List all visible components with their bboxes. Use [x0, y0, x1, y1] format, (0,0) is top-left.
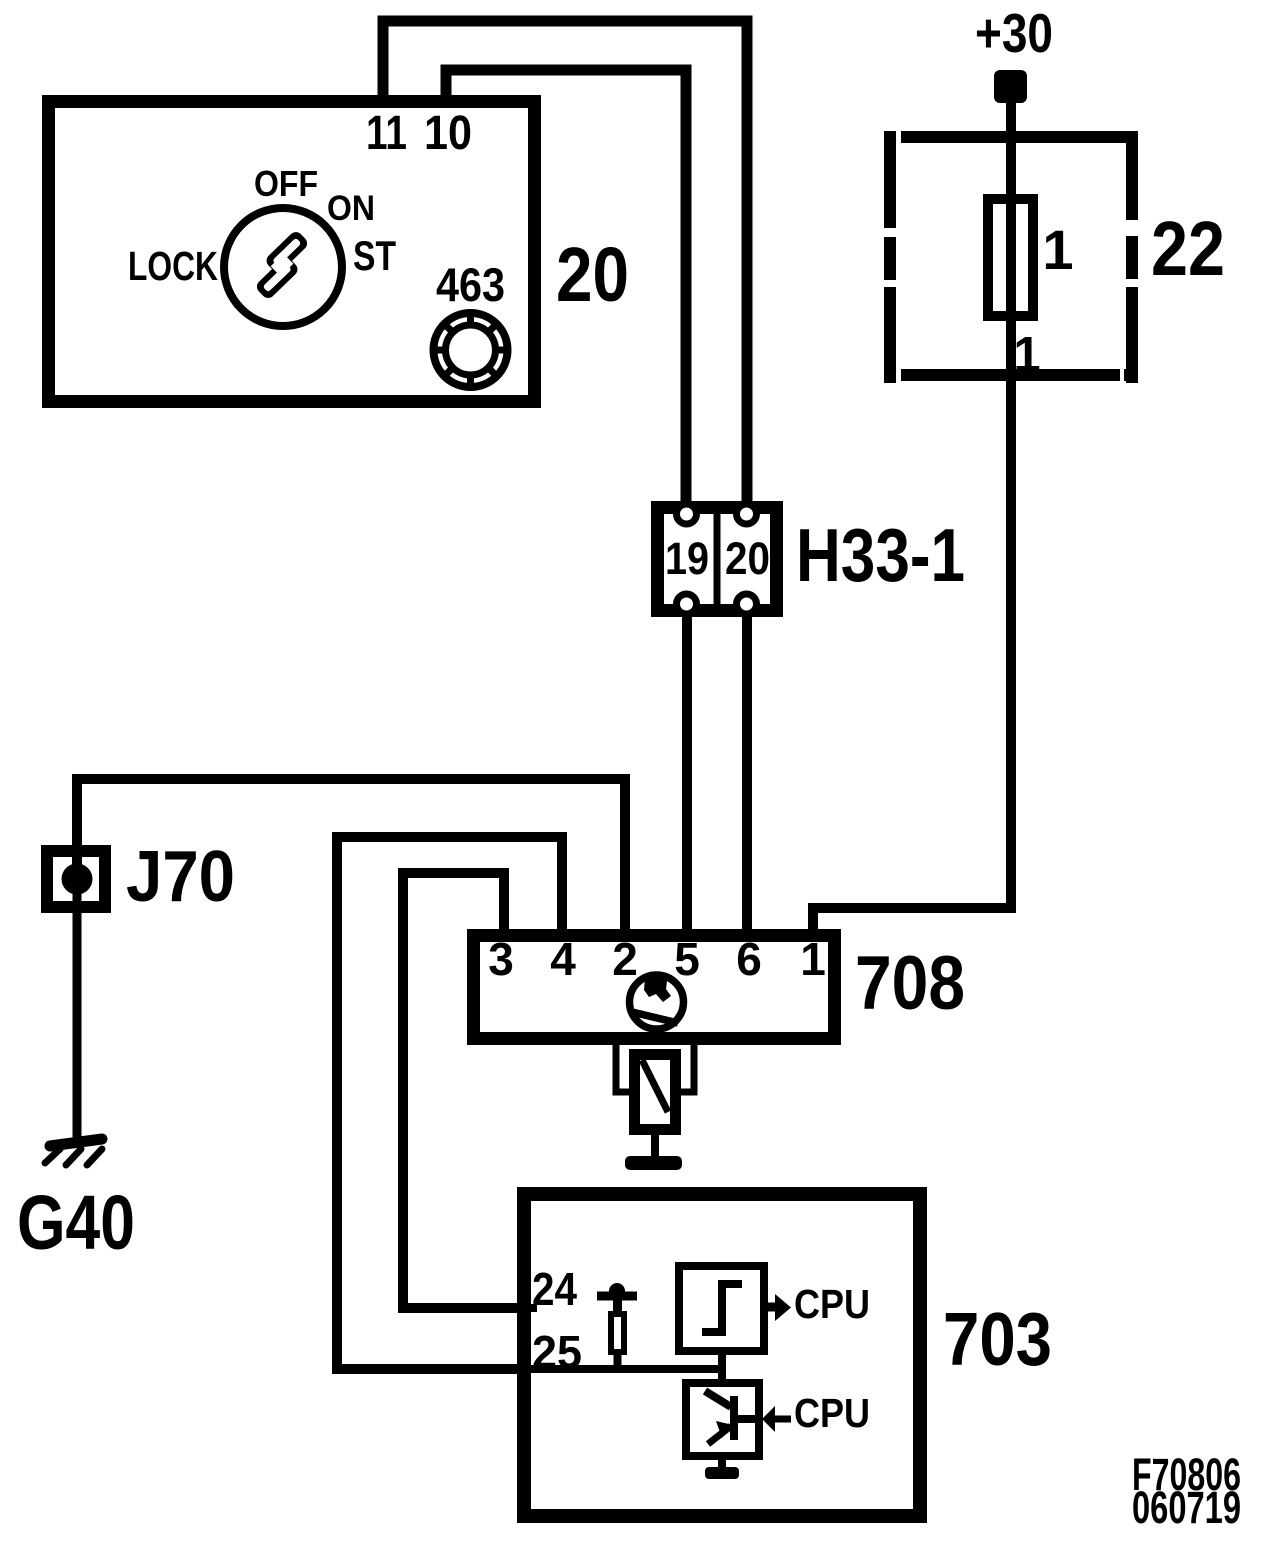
sensor holder left bracket: [616, 1045, 629, 1092]
svg-text:463: 463: [436, 258, 505, 311]
relay 708 box: [474, 936, 835, 1039]
H33-1 pin 20 top notch: [737, 504, 757, 524]
H33-1 pin 19 bottom notch: [677, 594, 697, 614]
transistor base lead: [734, 1415, 759, 1423]
svg-text:20: 20: [556, 232, 629, 318]
svg-text:CPU: CPU: [794, 1390, 870, 1436]
svg-text:G40: G40: [17, 1180, 135, 1266]
svg-text:ON: ON: [327, 189, 375, 228]
pull-up resistor bottom stub: [614, 1352, 622, 1369]
wire pin 10 to H33-1 pin 19: [446, 70, 686, 508]
ground G40 symbol: [45, 1139, 102, 1165]
sensor holder right bracket: [681, 1045, 694, 1092]
svg-text:+30: +30: [975, 2, 1053, 64]
wire ground G40 to J70: [73, 879, 82, 1142]
wire pin 11 to H33-1 pin 20: [383, 21, 747, 508]
svg-text:1: 1: [1013, 328, 1040, 382]
svg-text:060719: 060719: [1132, 1482, 1241, 1533]
battery terminal: [994, 70, 1027, 103]
svg-text:J70: J70: [126, 837, 235, 917]
CPU input arrow: [762, 1406, 791, 1432]
fuse box 22 dashed border right: [1126, 131, 1138, 383]
svg-text:2: 2: [612, 933, 638, 985]
wire schmitt to transistor: [718, 1351, 726, 1383]
svg-text:6: 6: [736, 933, 762, 985]
connector 463 symbol: [431, 310, 511, 390]
svg-text:708: 708: [855, 941, 965, 1026]
fuse box 22 dashed border top: [884, 131, 1138, 143]
transistor base bar: [730, 1396, 738, 1440]
wire H33-1 pin 19 to relay 708 pin 5: [682, 610, 692, 935]
internal supply bar: [597, 1292, 637, 1301]
chassis ground under transistor: [705, 1467, 739, 1479]
svg-text:5: 5: [674, 933, 700, 985]
svg-text:703: 703: [943, 1297, 1052, 1381]
wire +30 through fuse 1 to relay 708 pin 1: [813, 95, 1011, 935]
sensor diagonal: [642, 1060, 668, 1112]
pin 24 internal stub: [524, 1304, 537, 1312]
key cylinder circle: [224, 208, 342, 326]
key symbol: [246, 229, 319, 301]
wire sensor to ground: [651, 1135, 659, 1157]
chassis ground under sensor: [625, 1156, 682, 1170]
pin 25 internal net: [524, 1365, 722, 1373]
svg-text:10: 10: [424, 107, 472, 160]
wire J70 to relay 708 pin 2: [77, 779, 625, 935]
transistor emitter: [708, 1426, 731, 1444]
svg-text:11: 11: [366, 107, 407, 160]
transistor box: [686, 1383, 759, 1456]
fuse box 22 dashed border bottom: [884, 369, 1138, 381]
junction J70 box: [47, 851, 105, 907]
fuse 1 element: [988, 199, 1033, 316]
svg-text:1: 1: [1042, 218, 1073, 281]
svg-text:4: 4: [550, 933, 576, 985]
junction J70 dot: [62, 864, 93, 895]
pull-up resistor top stub: [613, 1300, 622, 1314]
wire relay 708 pin 3 to ECU 703 pin 24: [403, 873, 520, 1308]
wire transistor to ground: [718, 1456, 726, 1468]
fuse box 22 dashed border left: [884, 131, 896, 383]
svg-text:19: 19: [665, 533, 709, 584]
internal supply ball: [609, 1283, 625, 1299]
svg-text:1: 1: [800, 933, 826, 985]
connector H33-1 box: [658, 508, 777, 611]
transistor emitter arrow: [716, 1421, 733, 1438]
wire H33-1 pin 20 to relay 708 pin 6: [742, 610, 752, 935]
transistor collector: [705, 1391, 731, 1407]
svg-text:20: 20: [725, 533, 770, 584]
bulb symbol: [630, 974, 684, 1029]
H33-1 pin 20 bottom notch: [737, 594, 757, 614]
svg-text:H33-1: H33-1: [796, 513, 965, 597]
svg-text:OFF: OFF: [254, 163, 318, 204]
svg-text:3: 3: [488, 933, 514, 985]
sensor element: [635, 1055, 676, 1130]
schmitt trigger step symbol: [702, 1284, 742, 1332]
svg-text:LOCK: LOCK: [128, 243, 218, 289]
svg-text:24: 24: [532, 1263, 577, 1315]
wire relay 708 pin 4 to ECU 703 pin 25: [337, 837, 562, 1369]
schmitt trigger box: [679, 1266, 764, 1351]
H33-1 pin 19 top notch: [677, 504, 697, 524]
svg-text:ST: ST: [353, 232, 396, 279]
CPU output arrow: [768, 1294, 791, 1321]
pull-up resistor: [611, 1314, 624, 1352]
connector H33-1 divider: [714, 508, 721, 610]
svg-text:CPU: CPU: [794, 1281, 870, 1327]
svg-text:22: 22: [1151, 206, 1225, 292]
ECU 703 box: [524, 1194, 920, 1516]
ignition switch 20 box: [49, 102, 535, 402]
